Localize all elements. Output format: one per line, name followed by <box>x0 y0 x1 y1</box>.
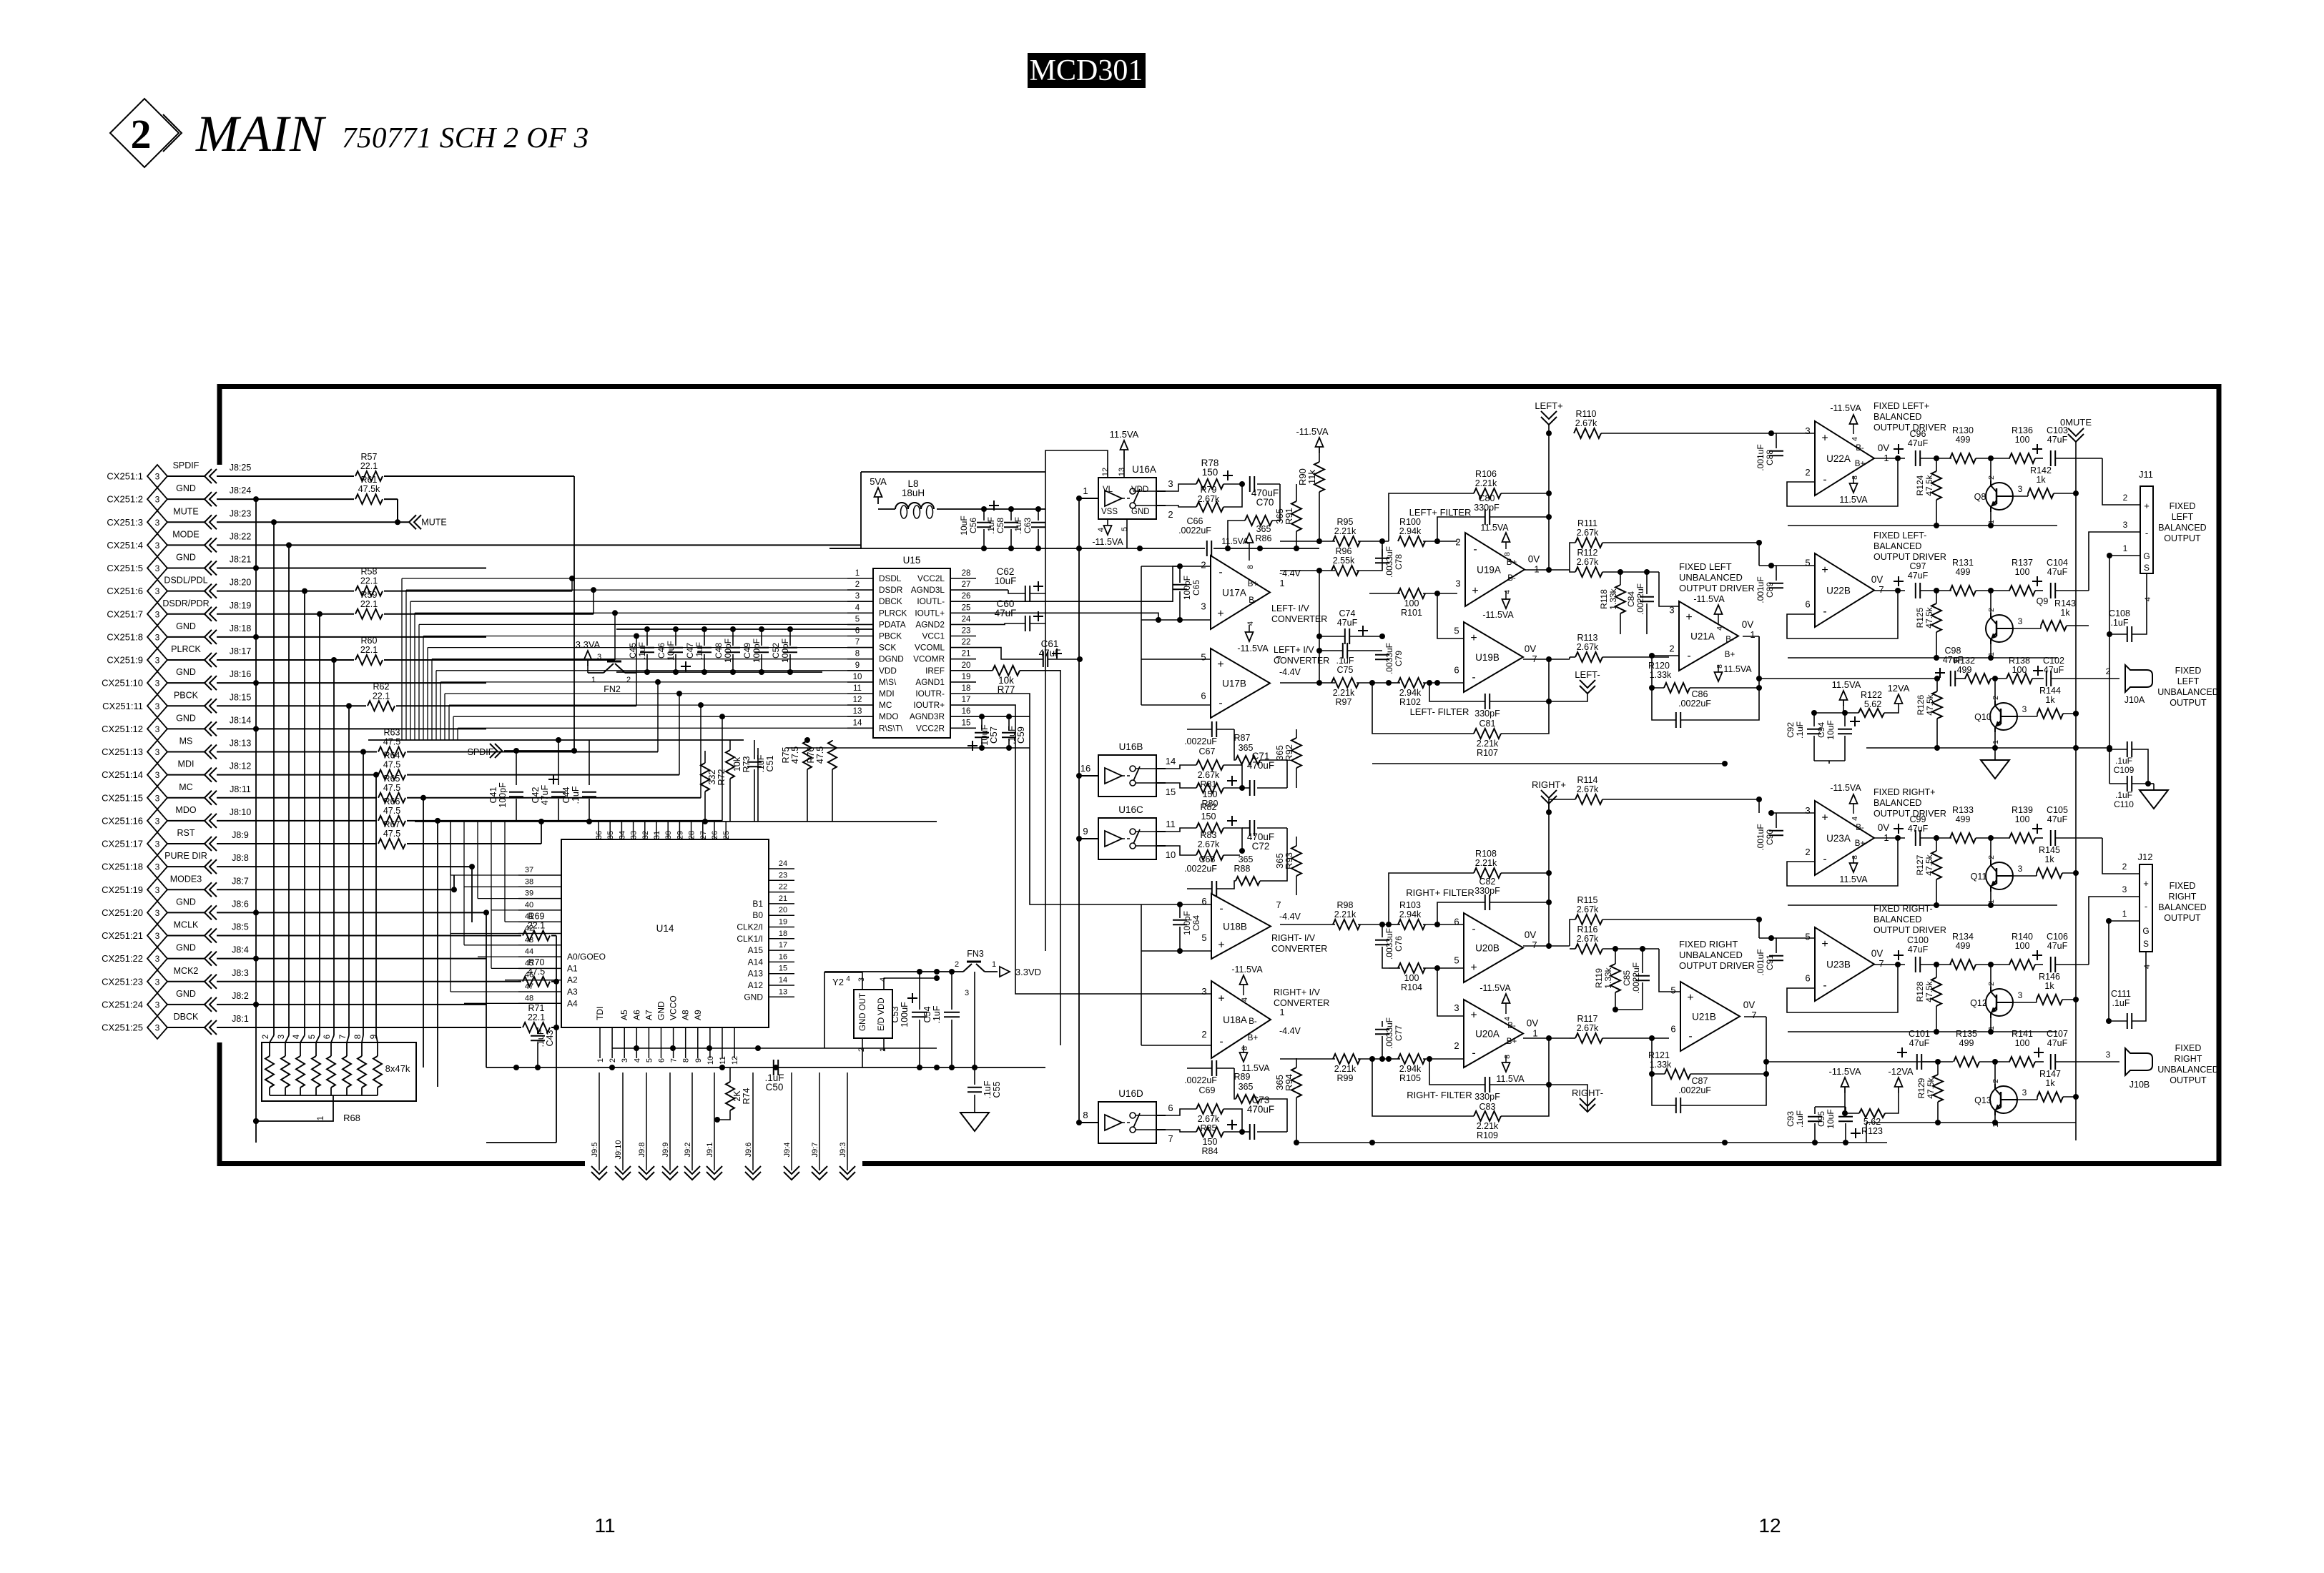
capacitor C67 .0022uF + resistor R87 365 <box>1211 721 1213 737</box>
svg-text:43: 43 <box>525 936 533 945</box>
svg-text:3: 3 <box>277 1035 286 1039</box>
svg-text:1k: 1k <box>2044 981 2054 991</box>
svg-text:8x47k: 8x47k <box>385 1063 410 1074</box>
svg-text:J8:7: J8:7 <box>232 876 249 886</box>
svg-text:VCOMR: VCOMR <box>913 654 945 664</box>
svg-text:C67: C67 <box>1199 746 1216 756</box>
svg-text:2.94k: 2.94k <box>1399 909 1422 919</box>
svg-text:A5: A5 <box>619 1010 629 1020</box>
svg-text:4: 4 <box>846 975 850 983</box>
resistor R108 2.21k <box>1474 868 1501 878</box>
svg-text:CX251:16: CX251:16 <box>102 815 143 826</box>
svg-text:VL: VL <box>1103 485 1113 494</box>
svg-text:.1uF: .1uF <box>932 1005 942 1023</box>
svg-text:R132: R132 <box>1954 656 1975 666</box>
svg-text:2.67k: 2.67k <box>1577 1023 1599 1033</box>
svg-text:19: 19 <box>779 918 787 927</box>
svg-text:27: 27 <box>962 581 971 589</box>
svg-text:CX251:11: CX251:11 <box>102 701 143 711</box>
svg-text:R95: R95 <box>1337 517 1354 527</box>
svg-text:6: 6 <box>1805 972 1810 983</box>
resistor R104 100 <box>1398 963 1425 973</box>
wire U23B bottom rail <box>1788 1031 2057 1032</box>
capacitor C98 47uF <box>1935 672 1945 674</box>
U15 pin 12 MC <box>847 704 873 706</box>
svg-text:.0022uF: .0022uF <box>1184 736 1217 746</box>
svg-text:FIXED RIGHT-: FIXED RIGHT- <box>1874 904 1933 914</box>
U14 pin 28 <box>691 822 692 839</box>
svg-text:100: 100 <box>2015 1038 2030 1048</box>
svg-text:R126: R126 <box>1916 694 1926 715</box>
svg-text:1: 1 <box>1532 1028 1537 1039</box>
capacitor C85 .0022uF <box>1642 949 1643 973</box>
svg-text:10: 10 <box>1166 849 1176 860</box>
svg-text:3: 3 <box>155 724 160 734</box>
resistor R93 365 <box>1291 846 1301 876</box>
svg-text:R123: R123 <box>1861 1126 1883 1136</box>
svg-text:.001uF: .001uF <box>1756 576 1766 603</box>
svg-text:1k: 1k <box>2044 854 2054 864</box>
resistor R106 2.21k <box>1474 488 1501 498</box>
svg-text:8: 8 <box>1246 565 1255 569</box>
crystal oscillator Y2 <box>854 990 892 1038</box>
svg-text:0V: 0V <box>1871 948 1884 959</box>
svg-text:330pF: 330pF <box>1474 709 1500 719</box>
svg-text:0MUTE: 0MUTE <box>2060 417 2092 428</box>
wire row21/23/25 riser <box>556 936 557 1143</box>
resistor R100 2.94k <box>1398 536 1425 546</box>
svg-text:35: 35 <box>606 831 615 839</box>
U15 pin 19 AGND1 <box>950 681 976 683</box>
svg-text:R116: R116 <box>1577 924 1598 935</box>
svg-text:5: 5 <box>1454 955 1459 966</box>
svg-text:.0022uF: .0022uF <box>1184 864 1217 874</box>
wire 3.3VD rail <box>824 971 937 972</box>
resistor R84 150 <box>1196 1127 1223 1137</box>
capacitor C88 .001uF <box>1771 433 1815 434</box>
wire U19A output to LEFT+ node <box>1525 569 1549 571</box>
svg-text:.0033uF: .0033uF <box>1384 928 1394 960</box>
power 3.3VD <box>985 971 998 972</box>
svg-text:3: 3 <box>1805 425 1810 436</box>
svg-text:470uF: 470uF <box>1247 1104 1274 1115</box>
resistor R144 1k <box>2037 709 2063 719</box>
svg-text:12: 12 <box>731 1056 739 1065</box>
U15 pin 27 AGND3L <box>950 589 976 591</box>
svg-text:MCLK: MCLK <box>174 920 199 930</box>
svg-text:.1uF: .1uF <box>536 1029 546 1047</box>
svg-text:10uF: 10uF <box>1826 1109 1836 1128</box>
svg-text:R135: R135 <box>1956 1029 1977 1039</box>
svg-text:MC: MC <box>879 700 892 710</box>
svg-text:J8:10: J8:10 <box>230 807 252 817</box>
U15 pin 14 R\S\T\ <box>847 727 873 729</box>
wire U22A bottom rail <box>1788 525 2057 526</box>
wire bus above U14 <box>368 739 744 741</box>
capacitor C64 100pF <box>1179 904 1181 918</box>
svg-text:A14: A14 <box>748 957 764 967</box>
svg-text:R127: R127 <box>1915 854 1925 875</box>
plug J10B <box>2102 1061 2119 1062</box>
svg-text:33: 33 <box>630 831 639 839</box>
svg-text:MDO: MDO <box>879 711 899 721</box>
svg-text:.1uF: .1uF <box>2115 756 2132 766</box>
svg-text:R89: R89 <box>1234 1072 1251 1082</box>
U15 pin 6 PBCK <box>847 636 873 637</box>
svg-text:OUTPUT: OUTPUT <box>2164 913 2201 923</box>
svg-text:+: + <box>1821 564 1828 576</box>
buffer U16A <box>1098 478 1156 519</box>
svg-text:BALANCED: BALANCED <box>1874 412 1921 422</box>
svg-text:.1uF: .1uF <box>1795 721 1805 739</box>
svg-text:R74: R74 <box>742 1088 752 1104</box>
svg-text:CONVERTER: CONVERTER <box>1271 944 1327 954</box>
svg-text:CX251:23: CX251:23 <box>102 976 143 987</box>
svg-text:FIXED: FIXED <box>2170 881 2196 891</box>
wire right mid bus <box>1296 1142 1887 1143</box>
capacitor C103 47uF <box>2032 448 2042 450</box>
svg-text:0V: 0V <box>1742 619 1754 630</box>
svg-text:C70: C70 <box>1256 497 1274 508</box>
svg-text:47uF: 47uF <box>1908 945 1929 955</box>
svg-text:10uF: 10uF <box>1826 720 1836 739</box>
svg-text:FIXED LEFT+: FIXED LEFT+ <box>1874 401 1929 411</box>
svg-text:PBCK: PBCK <box>174 690 199 700</box>
svg-text:IOUTR-: IOUTR- <box>915 689 945 699</box>
svg-text:24: 24 <box>962 615 971 623</box>
svg-text:CX251:7: CX251:7 <box>107 608 143 619</box>
capacitor C56 10uF <box>983 509 985 521</box>
resistor R66 47.5 <box>378 816 405 826</box>
svg-text:-4.4V: -4.4V <box>1279 1026 1301 1036</box>
svg-text:3: 3 <box>855 592 860 601</box>
svg-text:2: 2 <box>262 1035 270 1039</box>
svg-text:U23B: U23B <box>1826 960 1851 970</box>
resistor R80 150 <box>1196 783 1223 793</box>
U14 pin 29 <box>679 822 680 839</box>
resistor R127 47.5k <box>1931 851 1941 879</box>
svg-text:1: 1 <box>596 1058 605 1062</box>
svg-text:-: - <box>1823 980 1826 992</box>
off-page arrow J9:2 <box>691 1072 693 1170</box>
svg-text:150: 150 <box>1203 1137 1218 1147</box>
svg-text:.001uF: .001uF <box>1756 824 1766 850</box>
svg-text:-11.5VA: -11.5VA <box>1482 610 1514 620</box>
svg-text:R84: R84 <box>1202 1146 1218 1156</box>
svg-text:-4.4V: -4.4V <box>1279 667 1301 677</box>
svg-text:A7: A7 <box>644 1010 654 1020</box>
capacitor C78 .0033uF <box>1382 541 1383 556</box>
svg-text:C86: C86 <box>1692 689 1708 699</box>
svg-text:R61: R61 <box>361 475 378 485</box>
resistor R57 22.1 <box>355 471 383 481</box>
svg-text:-12VA: -12VA <box>1888 1066 1913 1077</box>
svg-text:47uF: 47uF <box>2047 435 2068 445</box>
buffer U16B <box>1098 755 1156 797</box>
svg-text:R125: R125 <box>1915 607 1925 628</box>
svg-text:R79: R79 <box>1201 485 1217 495</box>
svg-text:3: 3 <box>2122 884 2127 894</box>
svg-text:8: 8 <box>682 1058 691 1062</box>
resistor R139 100 <box>2009 833 2035 843</box>
svg-text:LEFT+: LEFT+ <box>1535 400 1562 411</box>
svg-text:150: 150 <box>1202 467 1218 478</box>
svg-text:VCC1: VCC1 <box>922 631 945 641</box>
svg-text:S: S <box>2144 563 2150 573</box>
svg-text:3.3VD: 3.3VD <box>1015 967 1041 977</box>
svg-text:FIXED RIGHT+: FIXED RIGHT+ <box>1874 787 1935 797</box>
svg-text:Q13: Q13 <box>1974 1095 1991 1105</box>
svg-text:R108: R108 <box>1475 849 1497 859</box>
svg-text:IREF: IREF <box>925 666 945 676</box>
svg-text:R111: R111 <box>1577 518 1597 528</box>
resistor R118 1.33k <box>1615 585 1625 613</box>
resistor R74 2K <box>726 1082 734 1110</box>
svg-text:R147: R147 <box>2039 1069 2061 1079</box>
svg-text:R119: R119 <box>1594 968 1604 988</box>
svg-text:UNBALANCED: UNBALANCED <box>1679 950 1743 960</box>
resistor R135 499 <box>1954 1057 1979 1067</box>
resistor R116 2.67k <box>1575 944 1602 954</box>
resistor R96 2.55k <box>1331 566 1359 576</box>
svg-text:GND: GND <box>176 553 196 563</box>
svg-text:2.67k: 2.67k <box>1577 528 1599 538</box>
resistor R137 100 <box>2009 586 2035 596</box>
svg-text:100: 100 <box>1404 973 1419 983</box>
U15 pin 25 IOUTL+ <box>950 612 976 613</box>
svg-text:R105: R105 <box>1399 1073 1421 1083</box>
svg-text:CX251:20: CX251:20 <box>102 907 143 918</box>
svg-text:15: 15 <box>779 965 787 973</box>
U22A feedback loop <box>1787 458 1898 506</box>
wire to U21A pin3 <box>1659 572 1679 606</box>
svg-text:C104: C104 <box>2047 558 2068 568</box>
resistor R132 499 <box>1965 674 1991 684</box>
svg-text:1.33k: 1.33k <box>1650 670 1672 680</box>
svg-text:2.67k: 2.67k <box>1575 418 1597 428</box>
svg-text:0V: 0V <box>1743 1000 1756 1010</box>
svg-text:42: 42 <box>525 924 533 933</box>
resistor R145 1k <box>2037 868 2062 878</box>
svg-text:2.21k: 2.21k <box>1477 739 1499 749</box>
wire R113 to U21A pin2 <box>1669 656 1679 658</box>
svg-text:.0022uF: .0022uF <box>1635 583 1645 615</box>
svg-text:FIXED: FIXED <box>2175 1043 2202 1053</box>
svg-text:3: 3 <box>155 679 160 689</box>
svg-text:+: + <box>1821 432 1828 444</box>
svg-text:100: 100 <box>2012 665 2027 675</box>
svg-text:C90: C90 <box>1765 829 1775 845</box>
svg-text:5: 5 <box>1201 932 1206 943</box>
svg-text:-: - <box>1472 1047 1475 1060</box>
svg-text:RIGHT+ I/V: RIGHT+ I/V <box>1274 987 1321 997</box>
svg-text:C110: C110 <box>2114 799 2134 809</box>
svg-text:R82: R82 <box>1201 802 1217 812</box>
U14 pin 25 <box>725 822 727 839</box>
U15 pin 4 PLRCK <box>847 612 873 613</box>
svg-text:GND OUT: GND OUT <box>859 993 867 1031</box>
svg-text:MUTE: MUTE <box>173 506 198 516</box>
svg-text:J9:1: J9:1 <box>706 1143 714 1158</box>
svg-text:RST: RST <box>177 828 195 838</box>
U14 pin 21 <box>769 903 794 904</box>
svg-text:2.21k: 2.21k <box>1477 1121 1499 1131</box>
resistor R85 2.67k <box>1196 1104 1223 1114</box>
svg-text:DBCK: DBCK <box>174 1012 199 1022</box>
svg-text:LEFT+ I/V: LEFT+ I/V <box>1274 645 1314 655</box>
svg-text:15: 15 <box>962 719 971 727</box>
svg-text:IOUTR+: IOUTR+ <box>913 700 945 710</box>
svg-text:11.5VA: 11.5VA <box>1496 1074 1525 1084</box>
svg-text:36: 36 <box>595 831 604 839</box>
svg-text:CX251:8: CX251:8 <box>107 631 143 642</box>
svg-text:CX251:4: CX251:4 <box>107 540 143 551</box>
svg-text:0V: 0V <box>1871 574 1884 585</box>
svg-text:3: 3 <box>857 977 866 982</box>
svg-text:5: 5 <box>1454 626 1459 636</box>
svg-text:C46: C46 <box>656 643 666 659</box>
svg-text:MC: MC <box>179 782 192 792</box>
svg-text:1k: 1k <box>2045 1078 2055 1088</box>
svg-text:14: 14 <box>1166 756 1176 766</box>
svg-text:FIXED: FIXED <box>2175 666 2202 676</box>
R68 element pin 7 <box>343 1056 351 1088</box>
svg-text:U18B: U18B <box>1223 922 1247 932</box>
svg-text:0V: 0V <box>1878 443 1890 453</box>
resistor R59 22.1 <box>355 609 383 619</box>
svg-text:GND: GND <box>176 897 196 907</box>
svg-text:R115: R115 <box>1577 895 1598 905</box>
svg-text:+: + <box>1472 585 1478 597</box>
op-amp U19B <box>1464 622 1523 692</box>
svg-text:47.5: 47.5 <box>383 806 400 816</box>
capacitor C50 .1uF <box>773 1060 774 1075</box>
op-amp U23B <box>1815 927 1874 1001</box>
svg-text:2: 2 <box>2123 493 2128 503</box>
svg-text:J9:7: J9:7 <box>811 1143 819 1158</box>
svg-text:OUTPUT DRIVER: OUTPUT DRIVER <box>1679 583 1755 593</box>
wire 5VA rail <box>937 508 1045 510</box>
svg-text:22: 22 <box>962 638 971 647</box>
svg-text:3: 3 <box>155 472 160 482</box>
svg-text:-: - <box>2145 901 2147 912</box>
U14 pin 11 <box>722 1027 723 1058</box>
svg-text:3: 3 <box>155 793 160 803</box>
svg-text:J8:14: J8:14 <box>230 715 252 725</box>
resistor network R68 8x47k <box>262 1042 416 1101</box>
ground symbol <box>960 1113 989 1131</box>
svg-text:J8:20: J8:20 <box>230 578 252 588</box>
svg-text:J8:18: J8:18 <box>230 623 252 633</box>
U14 pin 48 <box>518 1002 561 1004</box>
svg-text:47uF: 47uF <box>540 784 550 805</box>
svg-text:R101: R101 <box>1401 608 1422 618</box>
svg-text:11.5VA: 11.5VA <box>1839 874 1868 884</box>
svg-text:-: - <box>1472 671 1475 684</box>
svg-text:C87: C87 <box>1692 1076 1708 1086</box>
svg-text:47.5: 47.5 <box>383 829 400 839</box>
svg-text:SPDIF: SPDIF <box>173 460 200 470</box>
svg-text:2.55k: 2.55k <box>1333 556 1355 566</box>
resistor R94 365 <box>1291 1067 1301 1098</box>
ground symbol right of C110 <box>2140 790 2168 809</box>
svg-text:1: 1 <box>2122 909 2127 919</box>
resistor R114 2.67k <box>1575 794 1602 804</box>
wire U20B output <box>1523 945 1570 947</box>
svg-text:R63: R63 <box>384 728 400 738</box>
svg-text:C91: C91 <box>1765 955 1775 970</box>
svg-text:C98: C98 <box>1945 646 1961 656</box>
svg-text:C105: C105 <box>2047 805 2068 815</box>
svg-text:R103: R103 <box>1399 900 1421 910</box>
capacitor C63 .1uF <box>1038 509 1039 521</box>
svg-text:22.1: 22.1 <box>360 461 378 471</box>
svg-text:2: 2 <box>2122 862 2127 872</box>
svg-text:J8:24: J8:24 <box>230 485 252 495</box>
svg-text:-11.5VA: -11.5VA <box>1830 783 1861 793</box>
svg-text:R57: R57 <box>361 452 378 462</box>
svg-text:1: 1 <box>1083 485 1088 496</box>
svg-text:R76: R76 <box>806 746 816 763</box>
svg-text:C85: C85 <box>1622 970 1632 986</box>
svg-text:2.94k: 2.94k <box>1399 526 1422 536</box>
svg-text:TDI: TDI <box>595 1007 605 1020</box>
svg-text:-: - <box>1219 1036 1223 1048</box>
svg-text:10uF: 10uF <box>995 576 1017 586</box>
wire to U21B pin5 <box>1659 949 1680 992</box>
svg-text:R92: R92 <box>1284 744 1294 761</box>
svg-text:LEFT- FILTER: LEFT- FILTER <box>1410 706 1469 717</box>
capacitor C101 47uF <box>1897 1052 1907 1053</box>
svg-text:-: - <box>1219 903 1223 915</box>
svg-text:GND: GND <box>656 1001 666 1020</box>
svg-text:499: 499 <box>1957 665 1972 675</box>
svg-text:17: 17 <box>779 941 787 950</box>
ferrite bead FN3 <box>937 971 963 972</box>
wire U16A input bus <box>1079 498 1098 499</box>
svg-text:J8:5: J8:5 <box>232 922 249 932</box>
svg-text:J8:9: J8:9 <box>232 830 249 840</box>
svg-text:26: 26 <box>962 592 971 601</box>
svg-text:365: 365 <box>1256 524 1271 534</box>
svg-text:U17B: U17B <box>1222 679 1246 689</box>
svg-text:R98: R98 <box>1337 900 1354 910</box>
svg-text:R134: R134 <box>1952 932 1974 942</box>
svg-text:C74: C74 <box>1339 608 1356 618</box>
svg-text:17: 17 <box>962 696 971 704</box>
off-page arrow J9:9 <box>669 1072 671 1170</box>
svg-text:8: 8 <box>1503 1055 1512 1059</box>
svg-text:0V: 0V <box>1525 929 1537 940</box>
resistor R97 2.21k <box>1331 678 1359 688</box>
svg-text:-11.5VA: -11.5VA <box>1828 1066 1861 1077</box>
svg-text:330pF: 330pF <box>1474 503 1500 513</box>
resistor R134 499 <box>1950 960 1976 970</box>
svg-text:1: 1 <box>317 1116 325 1120</box>
wire left filter input bus <box>1280 541 1335 542</box>
svg-text:R73: R73 <box>742 756 752 772</box>
svg-text:U16D: U16D <box>1118 1088 1143 1099</box>
U14 pin 36 <box>598 822 599 839</box>
svg-text:5: 5 <box>1805 932 1810 942</box>
resistor R86 365 <box>1245 516 1272 526</box>
U15 pin 18 IOUTR- <box>950 693 976 694</box>
svg-text:UNBALANCED: UNBALANCED <box>1679 572 1743 583</box>
svg-text:100pF: 100pF <box>1182 576 1192 600</box>
svg-text:499: 499 <box>1956 941 1971 951</box>
svg-text:DSDR/PDR: DSDR/PDR <box>162 598 209 608</box>
svg-text:3: 3 <box>155 908 160 918</box>
